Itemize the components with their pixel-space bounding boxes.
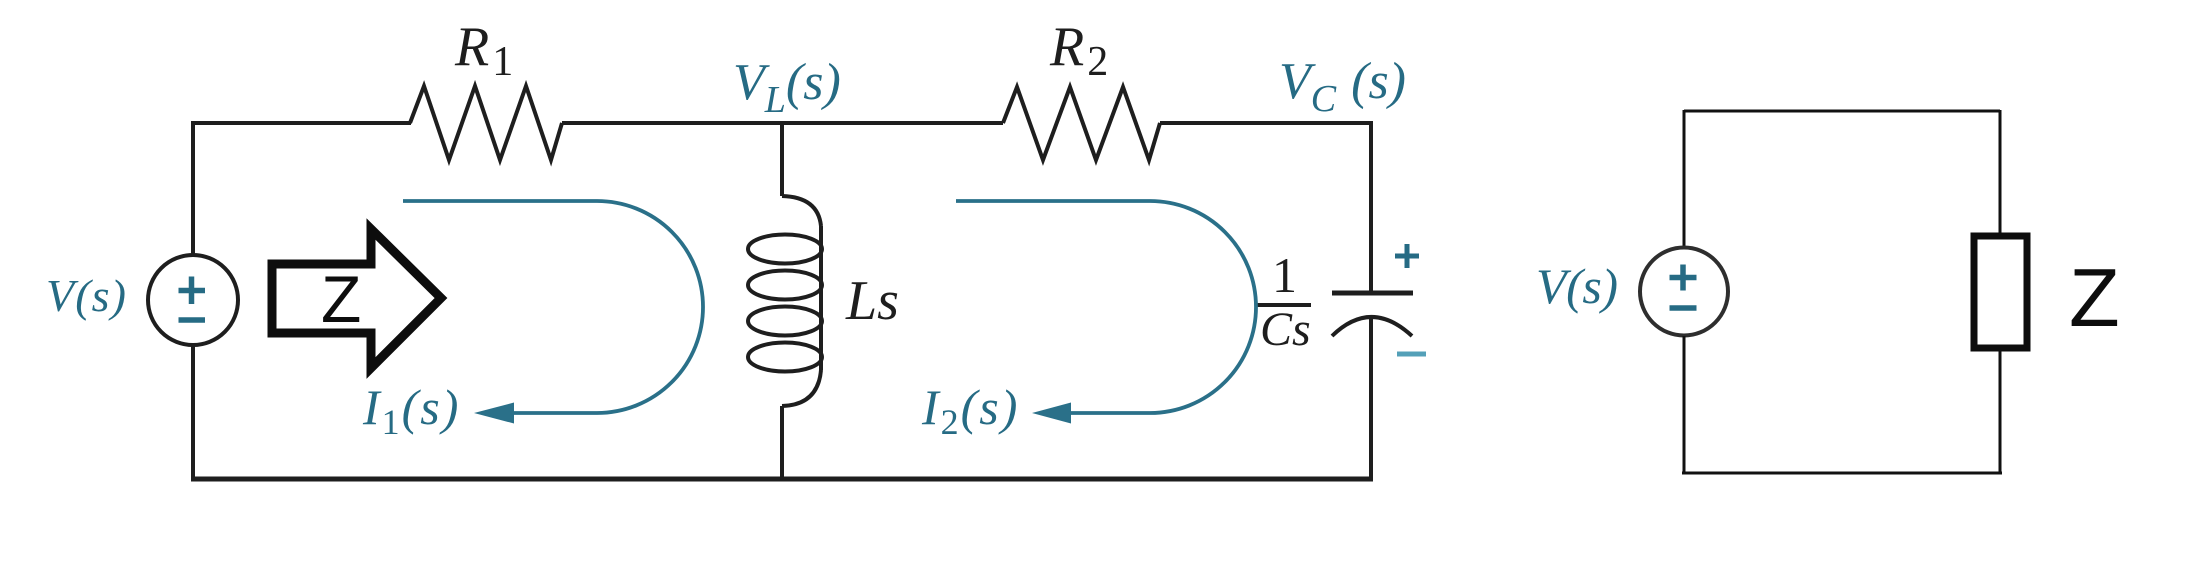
svg-text:Ls: Ls [845, 270, 899, 332]
svg-text:1: 1 [1272, 247, 1297, 303]
voltage source polarity plus [179, 277, 206, 305]
wire: right circuit top rail [1684, 110, 2000, 113]
label 1/Cs fraction [1257, 247, 1311, 356]
label R2 [1049, 16, 1108, 85]
wire: top rail left segment [191, 121, 411, 125]
voltage source polarity plus (right) [1670, 265, 1697, 291]
svg-text:I1(s): I1(s) [362, 379, 460, 442]
resistor R2 zigzag [1003, 87, 1160, 160]
svg-text:Cs: Cs [1260, 303, 1311, 356]
wire: bottom rail [191, 477, 1373, 482]
svg-text:R2: R2 [1049, 16, 1108, 85]
mesh current I1(s) arrowhead [474, 403, 514, 424]
svg-text:V(s): V(s) [46, 270, 126, 321]
capacitor top plate [1332, 291, 1413, 296]
label Ls [845, 270, 899, 332]
mesh current I2(s) arrowhead [1032, 403, 1071, 424]
wire: right vertical, capacitor to bottom rail [1369, 317, 1373, 479]
resistor R1 zigzag [410, 86, 562, 160]
voltage source polarity minus (right) [1670, 305, 1697, 311]
voltage source polarity minus [179, 317, 206, 323]
svg-text:I2(s): I2(s) [921, 379, 1019, 442]
label V(s) left source [46, 270, 126, 321]
label Z (right) [2069, 251, 2120, 344]
svg-text:VL(s): VL(s) [733, 54, 841, 121]
label V(s) right source [1536, 258, 1618, 314]
inductor Ls coil [748, 196, 822, 406]
label I2(s) [921, 379, 1019, 442]
wire: right circuit left vertical bottom [1683, 336, 1686, 473]
wire: right circuit left vertical top [1683, 110, 1686, 248]
svg-text:V(s): V(s) [1536, 258, 1618, 314]
label R1 [454, 16, 513, 85]
wire: right vertical, top corner to capacitor [1369, 121, 1373, 293]
wire: right circuit right vertical bottom [1999, 350, 2002, 473]
capacitor minus label [1397, 352, 1426, 357]
capacitor bottom curved plate [1332, 317, 1412, 336]
wire: left vertical, source bottom to bottom rail [191, 344, 195, 479]
wire: left vertical, top rail corner to source top [191, 121, 195, 255]
impedance Z block [1974, 236, 2027, 348]
impedance probe arrow Z (block arrow) [272, 229, 441, 368]
mesh current I1(s) arc [403, 201, 703, 413]
label I1(s) [362, 379, 460, 442]
svg-text:R1: R1 [454, 16, 513, 85]
node VC(s) label [1279, 53, 1406, 120]
wire: top rail middle segment (R1 to R2 through node VL) [562, 121, 1003, 125]
svg-text:VC(s): VC(s) [1279, 53, 1406, 120]
wire: middle vertical, inductor to bottom rail [780, 406, 784, 479]
svg-text:Z: Z [2069, 251, 2120, 344]
svg-text:Z: Z [321, 262, 361, 336]
wire: right circuit right vertical top [1999, 110, 2002, 234]
node VL(s) label [733, 54, 841, 121]
wire: right circuit bottom rail [1682, 472, 2002, 475]
wire: middle vertical, top rail to inductor [780, 121, 784, 196]
voltage source V(s) circle (right) [1640, 248, 1728, 336]
capacitor plus label [1395, 244, 1419, 268]
voltage source V(s) circle [148, 255, 238, 345]
mesh current I2(s) arc [956, 201, 1256, 413]
wire: top rail right segment (R2 to right corner) [1160, 121, 1371, 125]
